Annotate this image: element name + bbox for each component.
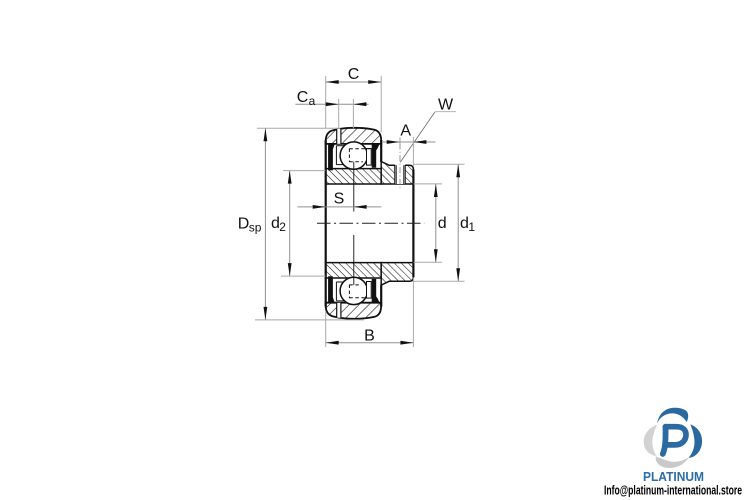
lubrication slot top [337,129,341,144]
C dim [326,81,382,83]
svg-text:S: S [334,190,345,207]
collar top (with set screw) [381,162,413,185]
svg-text:A: A [400,123,411,140]
letter P bowl [666,427,687,445]
white disk center [654,419,693,458]
raceway shoulder lines top-left [336,145,344,147]
petal bottom (gray) [656,456,690,468]
ball bottom dashed marks [348,285,350,299]
left face silhouette [325,140,327,307]
seal bottom-left [328,276,335,302]
svg-text:B: B [364,328,375,345]
raceway shoulder lines bottom-left [336,300,344,302]
lubrication slot bottom [337,303,341,318]
d ext lines [414,183,442,185]
d dim [435,184,437,262]
svg-text:sp: sp [249,221,262,235]
Dsp ext lines [257,127,340,129]
svg-text:Info@platinum-international.st: Info@platinum-international.store [604,483,742,498]
set screw hole top [395,164,405,184]
petal right (blue) [689,424,702,457]
outer ring bottom section [326,303,382,319]
screw centerline [399,137,401,143]
B ext lines [325,312,327,348]
Ca arrows (outside) [326,102,339,106]
S dim [298,206,382,208]
d1 ext lines [414,163,465,165]
A ext line right [412,137,414,166]
svg-text:d: d [438,215,447,232]
C ext lines [325,76,327,128]
d2 dim [289,171,291,277]
cage cross-section top [367,149,372,166]
W leader line [400,112,435,162]
d1 arrows [456,164,460,177]
svg-text:a: a [309,94,316,108]
cage cross-section bottom [367,282,372,299]
d arrows [434,184,438,197]
Ca ext lines [338,99,340,129]
svg-text:W: W [438,96,454,113]
svg-text:C: C [297,89,309,106]
ball top dashed marks [348,149,350,163]
svg-text:D: D [238,216,250,233]
ball top [340,142,367,169]
seal top-right [372,144,380,168]
petal left (gray) [644,425,657,456]
petal top (blue) [657,408,688,424]
d2 ext lines [283,170,326,172]
A dim [383,141,436,143]
Dsp arrows [264,128,268,141]
B arrows (inside) [326,341,339,345]
B dim [326,342,414,344]
seal top-left [328,144,335,170]
svg-text:2: 2 [279,220,286,234]
seal bottom-right [372,279,380,303]
right face of outer ring bottom [380,285,382,307]
collar right face [412,170,414,278]
letter P stem [663,427,666,454]
Dsp dim [264,128,266,320]
svg-text:1: 1 [468,220,475,234]
outer ring top section [326,128,382,144]
inner ring top band [326,169,382,184]
info text [604,483,742,498]
collar bottom [381,263,413,286]
ball bottom [340,277,367,304]
inner ring bottom band [326,263,382,278]
d1 dim [457,164,459,281]
S arrows (outside) [313,205,326,209]
centerline [317,222,424,224]
Ca dim [295,103,368,105]
ball center line to S (top) [353,162,355,212]
right face of outer ring top [380,140,382,162]
C arrows (inside) [326,80,339,84]
A arrows (outside) [387,140,400,144]
svg-text:C: C [348,66,360,83]
d2 arrows [288,171,292,184]
ball center line (bottom) [353,235,355,285]
